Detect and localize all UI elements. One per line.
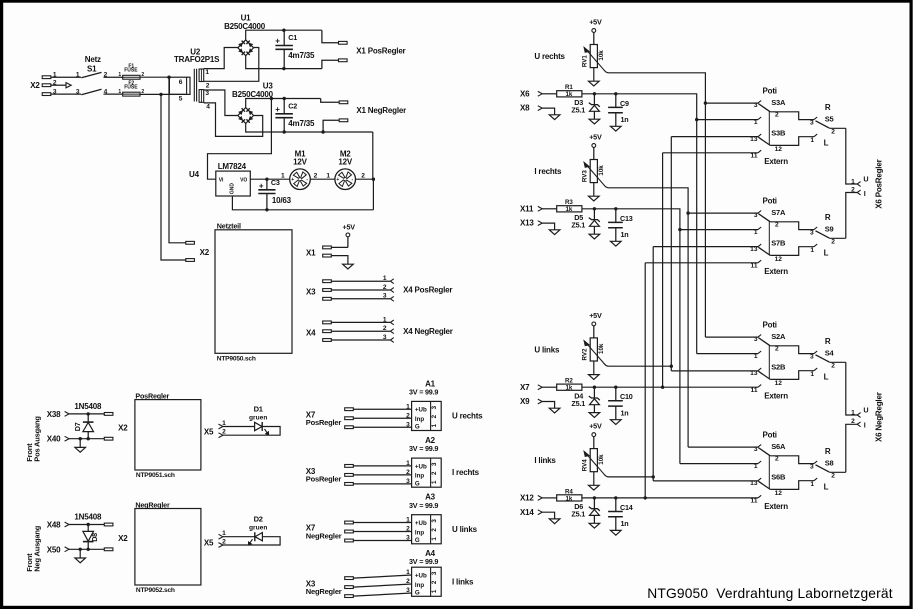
connector X1 logic supply (306, 246, 331, 257)
X3 pad 2 (345, 586, 354, 589)
connector X1 PosRegler (322, 30, 347, 68)
junction diode D7 bottom (87, 437, 90, 440)
switch S9 contact ticks (814, 227, 817, 247)
svg-text:2: 2 (383, 325, 387, 332)
junction C3 bottom (265, 208, 268, 211)
junction D5 (593, 207, 596, 210)
X1 neg pin 1 (339, 101, 348, 104)
capacitor C14 1n (608, 498, 633, 531)
ground symbol at X1 (343, 264, 354, 269)
X3 pad 1 (345, 577, 354, 580)
ground symbol RV2 (589, 375, 600, 380)
svg-text:I links: I links (534, 456, 556, 465)
zener diode D3 Z5.1 (571, 94, 599, 119)
svg-text:1: 1 (851, 178, 855, 185)
junction C14 (614, 496, 617, 499)
X4 pin 3 connector (390, 338, 393, 343)
connector X6 (520, 89, 542, 98)
junction diode D8 bottom (87, 548, 90, 551)
svg-text:2: 2 (775, 222, 779, 229)
wire X7 bus to S3B (663, 152, 758, 154)
X3 pin 2 connector (390, 288, 393, 293)
svg-text:B250C4000: B250C4000 (224, 22, 266, 31)
svg-text:X2: X2 (118, 424, 128, 433)
svg-text:2: 2 (851, 418, 855, 425)
switch S9 blade (816, 231, 830, 238)
svg-text:VO: VO (240, 177, 247, 183)
X3 pin 3 wire (331, 298, 390, 300)
wire X3 pin 2 (353, 474, 411, 476)
svg-text:11: 11 (751, 498, 758, 505)
potentiometer RV1 10k (582, 45, 606, 70)
svg-text:13: 13 (750, 246, 758, 253)
svg-text:10k: 10k (598, 165, 605, 176)
svg-text:Netz: Netz (85, 55, 101, 64)
wire S7B pole to S9 (770, 247, 814, 256)
wire X11 to R (542, 208, 557, 210)
svg-text:+Ub: +Ub (415, 520, 427, 527)
svg-text:X11: X11 (520, 204, 534, 213)
gang link S7A-S7B (768, 221, 770, 255)
wire X7 to R (542, 386, 557, 388)
pad X2 upper X38 (104, 413, 113, 416)
wire X13 to ground (542, 223, 554, 230)
svg-text:1: 1 (383, 316, 387, 323)
switch S2B blade (758, 371, 770, 379)
switch S4 blade (816, 355, 830, 362)
wire mains L down to X2 lower pin (169, 77, 186, 243)
svg-text:10k: 10k (598, 343, 605, 354)
wire S3B pole to S5 (770, 137, 814, 146)
svg-text:1n: 1n (621, 519, 629, 528)
+5V supply symbol (343, 223, 356, 248)
svg-text:2: 2 (775, 346, 779, 353)
pad X2 upper X48 (104, 523, 113, 526)
wire U1 plus to top rail (246, 30, 322, 40)
switch S3A blade (758, 104, 770, 112)
svg-text:TRAFO2P1S: TRAFO2P1S (174, 55, 220, 64)
svg-text:X2: X2 (200, 248, 210, 257)
ground symbol X14 (549, 519, 560, 524)
svg-text:NTP9051.sch: NTP9051.sch (136, 472, 175, 479)
svg-text:X8: X8 (520, 104, 530, 113)
wire RV4 bus to S7B (653, 246, 758, 248)
svg-text:NegRegler: NegRegler (135, 501, 170, 510)
svg-text:6: 6 (179, 79, 183, 86)
capacitor C9 1n (608, 94, 629, 127)
wire X7 pin 3 (353, 540, 411, 542)
svg-text:3: 3 (754, 336, 758, 343)
svg-text:1: 1 (383, 275, 387, 282)
wire S4 pole to X6 neg U (846, 362, 857, 415)
switch S4 contact ticks (814, 351, 817, 371)
svg-text:NTP9050.sch: NTP9050.sch (217, 356, 256, 363)
svg-text:2: 2 (406, 578, 410, 585)
sheet symbol Netzteil NTP9050 (215, 222, 292, 363)
switch S7A blade (758, 214, 770, 222)
wire poti tap to S3A (705, 102, 758, 104)
svg-text:2: 2 (406, 469, 410, 476)
wire S4 pole (829, 361, 846, 363)
svg-text:3: 3 (383, 293, 387, 300)
svg-text:2: 2 (406, 526, 410, 533)
svg-text:4m7/35: 4m7/35 (288, 51, 315, 60)
wire ground drop X40 (79, 439, 81, 448)
wiper wire RV4 (603, 473, 608, 477)
ground symbol X13 (549, 230, 560, 235)
bus RV4 vertical (652, 247, 654, 481)
resistor R2 1k (557, 378, 582, 392)
junction D4 (593, 386, 596, 389)
svg-text:R: R (825, 447, 831, 456)
svg-text:U rechts: U rechts (452, 412, 483, 421)
connector X1 NegRegler (321, 99, 348, 133)
svg-text:1k: 1k (565, 385, 572, 392)
connector X14 (520, 508, 542, 517)
ground symbol C13 (611, 241, 622, 246)
svg-text:2: 2 (831, 362, 835, 369)
wire U4 GND to ground rail (232, 196, 373, 210)
svg-text:VI: VI (219, 177, 224, 183)
X7 pad 1 (345, 521, 354, 524)
transformer U2 secondary winding 2 (199, 90, 210, 111)
svg-text:1n: 1n (621, 230, 629, 239)
connector X5 pos (204, 420, 226, 438)
svg-text:1: 1 (754, 463, 758, 470)
wire extern tap to S7A (680, 229, 758, 231)
switch S2B contact ticks (758, 368, 761, 387)
wire S7A pole to S9 (770, 222, 814, 230)
X7 pad 3 (345, 539, 354, 542)
svg-text:2: 2 (431, 528, 438, 532)
ground symbol X40 (75, 447, 86, 452)
diode D7 1N5408 (73, 414, 94, 439)
svg-text:3V = 99.9: 3V = 99.9 (409, 388, 438, 397)
ground symbol RV4 (589, 485, 600, 490)
meter module A2 (409, 436, 441, 487)
junction C2 bottom (283, 130, 286, 133)
svg-text:U links: U links (534, 345, 560, 354)
wire X12 to R (542, 497, 557, 499)
svg-text:U: U (863, 406, 868, 415)
pad X2 lower X50 (104, 548, 113, 551)
pin X2-3 (42, 93, 51, 96)
svg-text:FUSE: FUSE (124, 68, 138, 74)
potentiometer RV2 10k (582, 338, 606, 363)
svg-text:3: 3 (431, 462, 438, 466)
svg-text:5: 5 (179, 95, 183, 102)
svg-text:RV2: RV2 (582, 348, 589, 360)
svg-text:D2: D2 (254, 515, 263, 524)
X7 pad 2 (345, 530, 354, 533)
svg-text:1n: 1n (621, 115, 629, 124)
junction C2 top (283, 97, 286, 100)
capacitor C13 1n (608, 209, 633, 242)
svg-text:G: G (415, 424, 420, 431)
svg-text:G: G (415, 480, 420, 487)
connector X7 NegRegler (306, 517, 412, 542)
svg-text:+: + (291, 177, 294, 183)
X3 pin 3 pad (323, 297, 332, 300)
wire X12 bus to S7B (645, 262, 758, 264)
svg-text:11: 11 (751, 387, 758, 394)
svg-text:2: 2 (775, 456, 779, 463)
svg-text:3: 3 (754, 212, 758, 219)
svg-text:X6 NegRegler: X6 NegRegler (875, 392, 884, 442)
wire RV1 wiper bus (609, 73, 706, 337)
svg-text:1: 1 (406, 460, 410, 467)
wire U4 VO to M1 (250, 178, 289, 180)
sheet symbol PosRegler NTP9051 (135, 392, 201, 479)
svg-text:1: 1 (281, 172, 285, 179)
svg-text:U4: U4 (189, 170, 200, 179)
svg-text:3: 3 (406, 535, 410, 542)
resistor R3 1k (557, 199, 582, 213)
svg-text:R: R (825, 103, 831, 112)
svg-text:+5V: +5V (589, 132, 602, 141)
X3 pad 2 (345, 474, 354, 477)
svg-text:X6: X6 (520, 89, 530, 98)
connector X40 (47, 435, 69, 444)
svg-text:S8: S8 (825, 459, 834, 468)
junction C9 (614, 92, 617, 95)
ground symbol RV3 (589, 196, 600, 201)
wire X40 to pad (69, 438, 104, 440)
junction M2 return (372, 178, 375, 181)
svg-text:12: 12 (775, 146, 783, 153)
svg-text:GND: GND (230, 183, 236, 195)
svg-text:13: 13 (750, 480, 758, 487)
X1 pos pin 2 (339, 59, 348, 62)
bus RV2 vertical (670, 137, 672, 371)
svg-text:Extern: Extern (764, 267, 788, 276)
wire X50 to pad (69, 548, 104, 550)
gang link S3A-S3B (768, 111, 770, 145)
svg-text:2: 2 (104, 72, 108, 79)
LED D2 gruen (247, 515, 267, 546)
svg-text:3: 3 (406, 478, 410, 485)
wire S9 pole (829, 237, 846, 239)
svg-text:1: 1 (406, 403, 410, 410)
switch S8 blade (816, 465, 830, 472)
X4 pin 1 pad (323, 321, 332, 324)
wire S2A pole to S4 (770, 346, 814, 354)
wire X7 pin 2 (353, 531, 411, 533)
X4 pin 3 wire (331, 339, 390, 341)
wire RV2 bottom to ground (593, 361, 595, 375)
+5V supply for RV3 (589, 132, 602, 159)
svg-text:S6B: S6B (771, 472, 786, 481)
svg-text:Extern: Extern (764, 157, 788, 166)
regulator U4 LM7824 (216, 162, 251, 196)
wire X1 pin1 to +5V (331, 246, 348, 248)
wire RV2 wiper bus (609, 365, 672, 367)
meter module A4 (409, 549, 441, 597)
X7 pad 1 (345, 408, 354, 411)
fan motor M2 (335, 169, 356, 190)
switch S8 contact ticks (814, 461, 817, 481)
svg-text:gruen: gruen (249, 415, 267, 422)
ground symbol C10 (611, 420, 622, 425)
wire X12 signal to bus (582, 497, 758, 499)
svg-text:C14: C14 (620, 503, 633, 512)
wire pin4 to U3 AC right (204, 103, 263, 136)
junction X1 neg pin2 (321, 130, 324, 133)
svg-text:Z5.1: Z5.1 (571, 399, 585, 408)
svg-text:G: G (415, 590, 420, 597)
wire X38 to pad (69, 413, 104, 415)
switch S7B contact ticks (758, 244, 761, 263)
svg-text:4: 4 (206, 103, 210, 110)
svg-text:D8: D8 (90, 533, 99, 542)
svg-text:1: 1 (431, 480, 438, 484)
X1 pos pin 1 (339, 41, 348, 44)
connector X4 to X4 NegRegler (306, 316, 453, 342)
junction ground X40 (79, 437, 82, 440)
svg-text:RV3: RV3 (582, 170, 589, 182)
svg-text:1N5408: 1N5408 (74, 402, 102, 411)
svg-text:Inp: Inp (415, 416, 424, 423)
svg-text:10k: 10k (598, 50, 605, 61)
X3 pin 1 connector (390, 279, 393, 284)
switch S3B blade (758, 137, 770, 145)
svg-text:+Ub: +Ub (415, 407, 427, 414)
X2 sheet pin 2 (186, 259, 195, 262)
svg-text:2: 2 (831, 128, 835, 135)
svg-text:I rechts: I rechts (534, 167, 562, 176)
svg-text:Poti: Poti (763, 321, 777, 330)
wire S8 pole to X6 neg I (846, 424, 857, 472)
X4 pin 2 wire (331, 330, 390, 332)
wire X8 to ground (542, 108, 554, 115)
junction S7A extern tap (678, 228, 681, 231)
svg-text:NTP9052.sch: NTP9052.sch (136, 587, 175, 594)
wire X11 signal to bus (582, 209, 680, 464)
transformer U2 secondary winding 1 (199, 69, 210, 89)
svg-text:1: 1 (205, 69, 209, 76)
svg-text:1: 1 (810, 137, 814, 144)
connector X8 (520, 104, 542, 113)
X3 pin 1 pad (323, 280, 332, 283)
junction C13 (614, 207, 617, 210)
svg-text:R4: R4 (565, 488, 573, 495)
svg-text:11: 11 (751, 152, 758, 159)
X3 pad 1 (345, 465, 354, 468)
svg-text:X5: X5 (204, 538, 214, 547)
svg-text:11: 11 (751, 262, 758, 269)
wire RV3 bus to S6A (688, 446, 758, 448)
svg-text:X4 NegRegler: X4 NegRegler (403, 327, 453, 336)
switch S2A contact ticks (758, 335, 761, 354)
LED D1 gruen (249, 404, 270, 435)
svg-text:Poti: Poti (763, 197, 777, 206)
wire X7 pin 3 (353, 426, 411, 428)
switch S6B blade (758, 481, 770, 489)
junction S3A poti tap (704, 101, 707, 104)
wire S3A pole to S5 (770, 112, 814, 120)
svg-text:I rechts: I rechts (452, 468, 480, 477)
svg-text:gruen: gruen (249, 525, 267, 532)
svg-text:+5V: +5V (589, 311, 602, 320)
junction RV4 on bus (652, 475, 655, 478)
junction S7A poti tap (686, 211, 689, 214)
X4 pin 1 connector (390, 320, 393, 325)
X1 neg pin 2 (339, 119, 348, 122)
switch S6A contact ticks (758, 445, 761, 464)
svg-text:Z5.1: Z5.1 (571, 220, 585, 229)
junction S3A extern tap (695, 118, 698, 121)
svg-text:U rechts: U rechts (534, 52, 565, 61)
capacitor C10 1n (608, 387, 633, 420)
connector X2 to Netzteil (186, 241, 210, 261)
zener diode D4 Z5.1 (571, 387, 599, 412)
svg-text:1: 1 (431, 589, 438, 593)
ground symbol D6 (589, 523, 600, 528)
wire X3 pin 1 (353, 465, 411, 467)
bridge rectifier U3 (238, 108, 254, 124)
svg-text:C10: C10 (620, 392, 633, 401)
svg-text:U links: U links (452, 525, 478, 534)
wire S8 pole (829, 471, 846, 473)
connector X3 NegRegler (306, 569, 412, 597)
svg-text:1: 1 (810, 247, 814, 254)
ground symbol C14 (611, 530, 622, 535)
connector X3 to X4 PosRegler (306, 275, 452, 301)
svg-text:3V = 99.9: 3V = 99.9 (409, 557, 438, 566)
X3 pin 2 wire (331, 289, 390, 291)
svg-text:2: 2 (314, 172, 318, 179)
X3 pad 3 (345, 595, 354, 598)
svg-text:U: U (863, 175, 868, 184)
bridge rectifier U1 (238, 40, 254, 56)
junction F2 net (159, 93, 162, 96)
fuse F1 (118, 64, 144, 80)
svg-text:X2: X2 (30, 81, 40, 90)
wire X48 to pad (69, 524, 104, 526)
svg-text:+: + (259, 181, 264, 190)
zener diode D5 Z5.1 (571, 209, 599, 234)
ground symbol D4 (589, 413, 600, 418)
wire F1 to transformer pin 6 (140, 76, 169, 78)
svg-text:12V: 12V (338, 158, 352, 167)
wire F2 to transformer pin 5 (140, 93, 187, 95)
ground symbol X9 (549, 408, 560, 413)
X4 pin 3 pad (323, 339, 332, 342)
junction C3 top (265, 178, 268, 181)
fan motor M1 (290, 169, 311, 190)
svg-text:4: 4 (104, 89, 108, 96)
svg-text:X14: X14 (520, 508, 534, 517)
svg-text:3: 3 (431, 571, 438, 575)
svg-text:1: 1 (326, 172, 330, 179)
svg-text:3V = 99.9: 3V = 99.9 (409, 444, 438, 453)
wire poti tap to S7A (688, 212, 758, 214)
wire C2 rail down to ground rail (372, 132, 374, 179)
connector X5 neg (204, 530, 226, 547)
svg-text:I: I (864, 189, 866, 198)
svg-text:X2: X2 (118, 534, 128, 543)
switch S5 blade (816, 121, 830, 128)
svg-text:X38: X38 (47, 410, 61, 419)
svg-text:+5V: +5V (589, 17, 602, 26)
gang link S2A-S2B (768, 345, 770, 379)
wire X5-1 to LED loop (223, 536, 255, 538)
wire pin3 to U3 AC left (204, 90, 238, 116)
svg-text:B250C4000: B250C4000 (232, 90, 274, 99)
svg-text:1: 1 (431, 423, 438, 427)
wire S2B pole to S4 (770, 371, 814, 380)
zener diode D6 Z5.1 (571, 498, 599, 523)
